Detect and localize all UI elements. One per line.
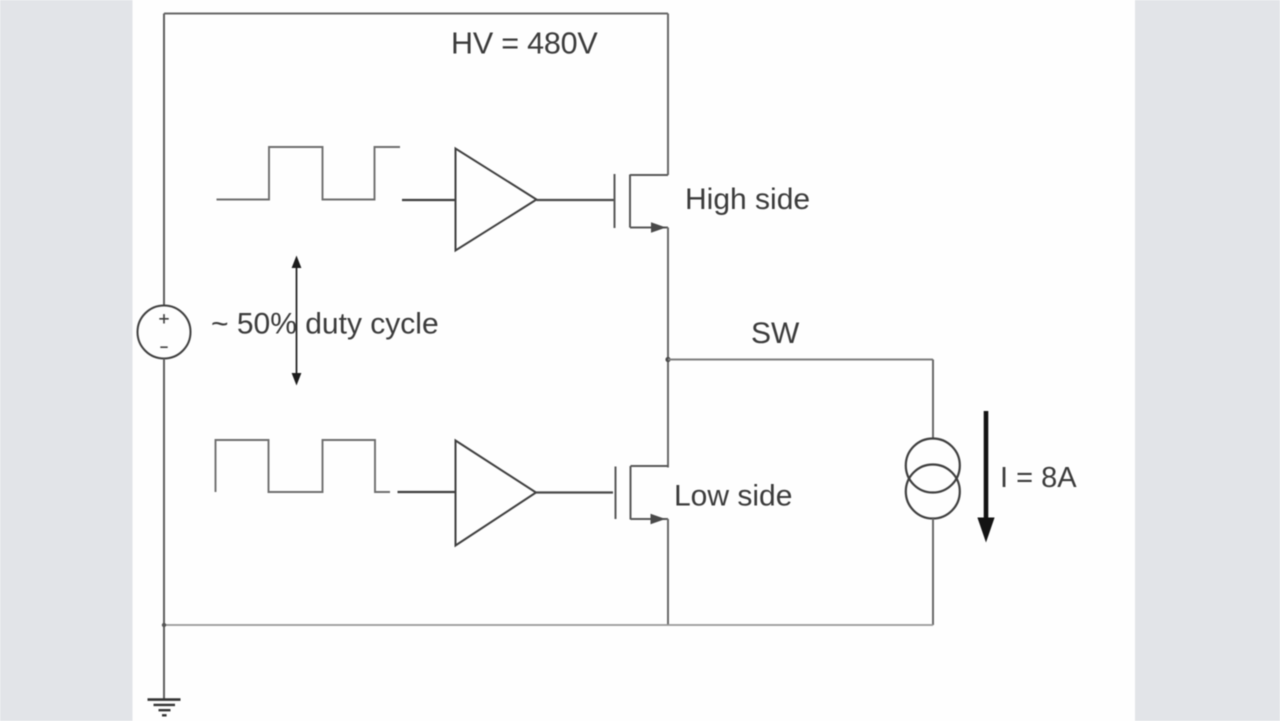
source lead (631, 518, 669, 520)
wire: bottom rail (164, 624, 933, 626)
low-side MOSFET Q2 (616, 466, 669, 520)
left gray pillar (0, 0, 133, 721)
wire: left rail from source bottom to ground (163, 359, 165, 700)
buffer U1 (high-side driver triangle) (456, 149, 537, 251)
wire: high-side drain vertical from rail (667, 14, 669, 176)
wire: bottom buffer output to gate (536, 491, 613, 493)
svg-text:High side: High side (685, 183, 810, 216)
wire: left rail from top to source top (163, 14, 165, 306)
svg-text:~ 50% duty cycle: ~ 50% duty cycle (211, 308, 439, 341)
voltage source minus sign (160, 346, 167, 348)
high-side source arrow (651, 222, 666, 232)
node SW junction dot (665, 357, 670, 362)
ground symbol (148, 700, 181, 716)
top PWM square wave (217, 147, 401, 200)
gate bar (615, 467, 617, 520)
wire: branch vertical down to current source (932, 360, 934, 439)
right gray pillar (1135, 0, 1280, 721)
svg-text:HV = 480V: HV = 480V (451, 27, 598, 61)
current direction arrow (thick) (977, 411, 994, 543)
voltage source plus sign (159, 314, 168, 323)
wire: HV top rail (164, 13, 668, 15)
svg-text:SW: SW (751, 317, 800, 350)
buffer U2 (low-side driver triangle) (456, 441, 537, 546)
channel bar (629, 175, 631, 228)
drain lead (630, 174, 668, 176)
wire: top buffer output to gate (537, 199, 615, 201)
voltage source V1 circle (138, 306, 191, 359)
gate bar (614, 174, 616, 228)
duty-cycle double arrow (292, 256, 302, 386)
wire: SW horizontal to current source branch (668, 359, 933, 361)
drain lead (631, 465, 669, 467)
wire: current source bottom to rail (932, 519, 934, 626)
wire: bottom buffer input (398, 491, 457, 493)
wire: low-side source down to bottom rail (667, 519, 669, 625)
svg-text:I = 8A: I = 8A (1000, 462, 1077, 494)
wire: high-side source to low-side drain vertical (667, 228, 669, 468)
low-side source arrow (651, 514, 666, 524)
source lead (630, 227, 668, 229)
svg-text:Low side: Low side (674, 480, 792, 513)
bottom PWM square wave (216, 440, 391, 492)
wire: top buffer input (402, 199, 456, 201)
node: bottom-left junction dot (162, 623, 166, 627)
channel bar (630, 466, 632, 520)
current source I1 (two overlapping circles) (906, 439, 960, 519)
high-side MOSFET Q1 (615, 174, 669, 228)
